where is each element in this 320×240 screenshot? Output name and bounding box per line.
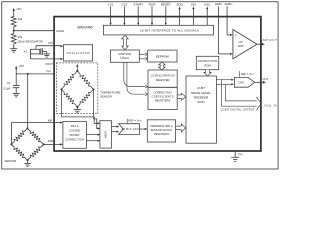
svg-text:PGA &: PGA & bbox=[71, 124, 79, 128]
svg-text:16-BIT ADC: 16-BIT ADC bbox=[122, 127, 140, 131]
svg-text:X1: X1 bbox=[23, 49, 27, 53]
arrow ADC to temp/sensor registers bbox=[139, 128, 145, 130]
svg-text:AGND: AGND bbox=[56, 29, 64, 33]
wire DSP to DAC upper bbox=[216, 79, 231, 81]
svg-text:AMP: AMP bbox=[238, 44, 244, 48]
node bridge top bbox=[27, 127, 29, 129]
node bridge right bbox=[43, 143, 45, 145]
wire AMP- to op-amp bbox=[218, 53, 229, 55]
configuration register box bbox=[148, 70, 177, 87]
svg-text:REGISTER: REGISTER bbox=[156, 78, 170, 82]
power +5V (VDD) bbox=[15, 68, 17, 74]
ground (temp bridge) bbox=[74, 107, 81, 113]
svg-text:COARSE: COARSE bbox=[69, 128, 80, 132]
16-bit interface box bbox=[103, 25, 213, 35]
svg-text:+5V: +5V bbox=[18, 64, 25, 68]
dashed box temperature sensor bbox=[56, 63, 97, 114]
svg-text:LOGIC: LOGIC bbox=[120, 56, 129, 60]
ground (divider) bbox=[10, 45, 17, 52]
instruction ROM box bbox=[196, 56, 218, 69]
oscillator box bbox=[63, 45, 92, 61]
svg-text:INM: INM bbox=[48, 139, 54, 143]
svg-text:SENSOR SIGNAL: SENSOR SIGNAL bbox=[150, 128, 173, 132]
wire X1 to oscillator lower input (XOUT) bbox=[29, 52, 31, 59]
svg-text:COEFFICIENTS: COEFFICIENTS bbox=[152, 94, 174, 98]
svg-text:C1: C1 bbox=[7, 81, 11, 85]
svg-text:OSCILLATOR: OSCILLATOR bbox=[67, 51, 90, 55]
DAC bbox=[234, 77, 254, 87]
svg-text:CONFIGURATION: CONFIGURATION bbox=[151, 74, 175, 78]
wire bridge supply riser bbox=[27, 74, 29, 128]
wire OUT bbox=[255, 81, 264, 83]
wire AGND bbox=[14, 30, 54, 32]
svg-text:CORRECTION: CORRECTION bbox=[65, 137, 84, 141]
power +5V (top divider) bbox=[13, 10, 15, 15]
svg-text:START: START bbox=[133, 2, 143, 6]
svg-text:AMP+: AMP+ bbox=[224, 2, 233, 6]
node bridge left bbox=[10, 143, 12, 145]
node bridge bottom bbox=[27, 159, 29, 161]
svg-text:10k: 10k bbox=[18, 35, 23, 39]
node temp bridge right bbox=[92, 88, 94, 90]
svg-text:DIGITAL SIGNAL: DIGITAL SIGNAL bbox=[191, 91, 211, 95]
eeprom box bbox=[148, 50, 177, 62]
op-amp bbox=[233, 30, 257, 59]
bent arrow control logic to correction registers bbox=[127, 62, 148, 95]
svg-text:DAC: DAC bbox=[239, 80, 245, 84]
svg-text:EEPROM: EEPROM bbox=[156, 54, 170, 58]
wire DSP to DAC lower bbox=[216, 83, 231, 85]
capacitor C1 0.1uF bbox=[13, 74, 20, 94]
svg-text:0.1µF: 0.1µF bbox=[3, 86, 10, 90]
svg-text:RESET: RESET bbox=[161, 2, 171, 6]
arrow temp bridge to VDD bbox=[76, 66, 78, 71]
external sensor bridge bbox=[11, 128, 43, 160]
svg-text:REGISTERS: REGISTERS bbox=[154, 132, 169, 136]
ground (C1) bbox=[13, 93, 20, 97]
ADC 16-bit bbox=[119, 124, 140, 135]
hollow double arrow eeprom to configuration register bbox=[159, 62, 166, 70]
wire temp bridge right to MUX bbox=[93, 89, 98, 128]
svg-text:16-BIT: 16-BIT bbox=[197, 86, 205, 90]
PGA & coarse offset correction box bbox=[63, 121, 87, 148]
ground (sensor bridge) bbox=[24, 160, 30, 166]
hollow arrow registers to DSP bbox=[176, 124, 186, 132]
REF callout (DAC) bbox=[239, 71, 241, 77]
control logic box bbox=[110, 50, 139, 62]
hollow double arrow interface to control logic bbox=[122, 35, 129, 49]
wire INP riser bbox=[10, 123, 12, 145]
svg-text:ROM: ROM bbox=[204, 63, 211, 67]
node divider junction bbox=[13, 30, 15, 32]
correction coefficients registers box bbox=[148, 87, 177, 109]
svg-text:XIN: XIN bbox=[48, 41, 53, 45]
wire AMP+ to op-amp bbox=[227, 34, 230, 36]
svg-text:TEMPERATURE: TEMPERATURE bbox=[100, 91, 120, 95]
hollow bus 12-bit digital output bbox=[221, 97, 261, 110]
svg-text:XOUT: XOUT bbox=[45, 62, 53, 66]
svg-text:OUT: OUT bbox=[263, 77, 269, 81]
hollow arrow correction registers to DSP bbox=[177, 93, 186, 100]
svg-text:TEST: TEST bbox=[148, 2, 156, 6]
svg-text:CS2: CS2 bbox=[121, 2, 127, 6]
svg-text:INP: INP bbox=[48, 119, 53, 123]
hollow arrow ROM to DSP bbox=[204, 70, 211, 76]
svg-text:D [11...0]: D [11...0] bbox=[265, 103, 277, 107]
ground (X1) bbox=[43, 54, 50, 57]
svg-text:SDI: SDI bbox=[191, 2, 196, 6]
svg-text:PROCESSOR: PROCESSOR bbox=[194, 95, 209, 99]
temperature & sensor signal registers box bbox=[147, 120, 175, 142]
svg-text:OP: OP bbox=[239, 40, 243, 44]
REF callout (ADC) bbox=[126, 119, 128, 124]
svg-text:(DSP): (DSP) bbox=[197, 100, 204, 104]
svg-text:REGISTERS: REGISTERS bbox=[155, 99, 171, 103]
svg-text:+: + bbox=[235, 34, 237, 38]
svg-text:32kHz RESONATOR: 32kHz RESONATOR bbox=[17, 39, 42, 43]
node temp bridge bottom bbox=[76, 106, 78, 108]
svg-text:OFFSET: OFFSET bbox=[69, 133, 80, 137]
node temp bridge top bbox=[76, 70, 78, 72]
temperature sensor bridge bbox=[62, 71, 94, 107]
svg-text:CS1: CS1 bbox=[108, 2, 114, 6]
svg-text:MAX1460: MAX1460 bbox=[77, 25, 93, 29]
wire temp bridge left to MUX bbox=[62, 89, 99, 123]
svg-text:16-BIT INTERFACE TO ALL SIGNAL: 16-BIT INTERFACE TO ALL SIGNALS bbox=[140, 28, 199, 32]
arrows PGA to MUX bbox=[86, 134, 98, 136]
svg-text:SENSOR: SENSOR bbox=[100, 95, 111, 99]
svg-text:TEMPERATURE &: TEMPERATURE & bbox=[150, 124, 173, 128]
svg-text:SENSOR: SENSOR bbox=[5, 159, 17, 163]
crystal X1 32kHz resonator bbox=[30, 46, 46, 55]
wire AMPOUT bbox=[257, 43, 262, 45]
svg-text:CORRECTION: CORRECTION bbox=[154, 90, 172, 94]
MUX box bbox=[100, 121, 112, 148]
arrows control logic to eeprom bbox=[139, 53, 147, 60]
svg-text:OSC: OSC bbox=[204, 2, 211, 6]
node temp bridge left bbox=[60, 88, 62, 90]
svg-text:AMP-: AMP- bbox=[215, 2, 223, 6]
wire VDD bbox=[16, 73, 54, 75]
resistor R1 10k bbox=[11, 15, 16, 29]
svg-text:12-BIT DIGITAL OUTPUT: 12-BIT DIGITAL OUTPUT bbox=[221, 108, 255, 112]
resistor R2 10k bbox=[11, 32, 16, 45]
chip outline MAX1460 bbox=[54, 17, 261, 151]
wire INP bbox=[11, 122, 61, 124]
svg-text:SDO: SDO bbox=[176, 2, 183, 6]
svg-text:AMPOUT: AMPOUT bbox=[260, 38, 277, 42]
svg-text:+5V: +5V bbox=[16, 7, 23, 11]
arrows MUX to ADC bbox=[112, 126, 118, 128]
svg-text:MUX: MUX bbox=[104, 131, 108, 138]
svg-text:INSTRUCTION: INSTRUCTION bbox=[198, 59, 218, 63]
svg-text:10k: 10k bbox=[18, 17, 23, 21]
bent arrow control logic to configuration register bbox=[124, 62, 148, 88]
wire XIN to oscillator bbox=[36, 45, 62, 47]
bus split wires to 12-bit output bbox=[220, 80, 222, 107]
ground VSS bbox=[231, 151, 239, 161]
DSP box bbox=[186, 76, 216, 143]
wire INM bbox=[44, 143, 61, 145]
